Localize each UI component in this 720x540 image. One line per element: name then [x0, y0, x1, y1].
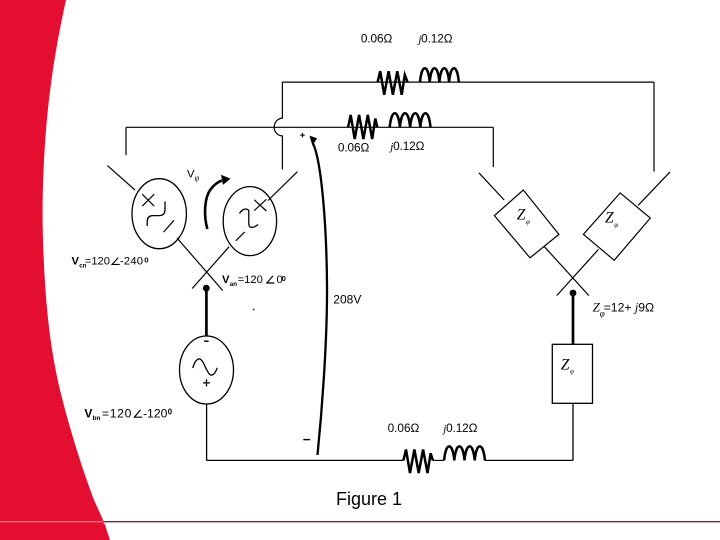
- source Van sine squiggle: [240, 209, 259, 227]
- wire: top line horizontal: [282, 81, 654, 83]
- source Vbn sine wave: [193, 359, 217, 375]
- wire: source Vbn to bottom line vertical: [206, 404, 208, 461]
- impedance Z3 box: [552, 344, 592, 403]
- source Vcn polarity x mark: [142, 194, 154, 206]
- wire: middle line right vertical drop: [492, 127, 494, 167]
- source Vbn polarity plus: [203, 379, 210, 386]
- svg-text:=120: =120: [85, 256, 110, 268]
- source Vcn polarity minus tick: [164, 220, 175, 232]
- wire: bottom line horizontal left of resistor: [207, 459, 404, 461]
- svg-text:0.06Ω: 0.06Ω: [388, 421, 420, 435]
- source Vcn sine squiggle: [147, 202, 165, 227]
- impedance Z2 box (rotated): [583, 193, 650, 260]
- wire: middle line left vertical stub: [125, 127, 127, 155]
- svg-text:an: an: [230, 281, 237, 288]
- wire: middle line horizontal: [126, 126, 493, 128]
- svg-text:j0.12Ω: j0.12Ω: [388, 139, 424, 153]
- wire: bottom line right of inductor: [485, 459, 573, 461]
- voltage arrow 208V curved with arrowhead: [313, 144, 327, 456]
- source Van ellipse: [223, 187, 276, 256]
- svg-text:-240: -240: [120, 256, 143, 268]
- source Vbn ellipse: [180, 336, 234, 404]
- svg-text:Z: Z: [605, 210, 614, 227]
- impedance Z1 box (rotated): [494, 190, 559, 258]
- resistor 0.06 ohm top line: [378, 71, 408, 95]
- resistor 0.06 ohm middle line: [348, 115, 377, 139]
- resistor 0.06 ohm bottom line: [403, 450, 433, 474]
- svg-text:208V: 208V: [333, 292, 361, 306]
- minus sign at bottom of 208V arrow: [303, 439, 310, 441]
- svg-text:Z: Z: [517, 207, 526, 224]
- wire: diagonal from middle line stub to source Vcn: [107, 166, 135, 190]
- wire: diagonal from top-line drop to impedance Z2: [638, 172, 670, 205]
- wire: diagonal from top-line vertical to source Van: [268, 172, 298, 201]
- plus sign at top of 208V arrow: [300, 133, 304, 137]
- source Vcn ellipse: [132, 179, 186, 249]
- source Van polarity x mark: [254, 199, 266, 211]
- wire: node n to source Vbn (thick): [205, 288, 208, 336]
- label Vcn = 120 angle -240 deg: [72, 255, 149, 269]
- svg-text:0: 0: [168, 407, 173, 416]
- wire: bottom line between resistor and inductor: [433, 459, 444, 461]
- wire: impedance Z1 diagonal to load node N: [544, 247, 589, 296]
- label Vbn = 120 angle -120 deg: [84, 406, 172, 422]
- svg-text:φ: φ: [526, 218, 530, 226]
- svg-text:0.06Ω: 0.06Ω: [361, 32, 393, 46]
- svg-text:φ: φ: [570, 368, 574, 376]
- svg-text:=120: =120: [238, 274, 263, 286]
- svg-text:bn: bn: [93, 415, 101, 422]
- svg-text:j0.12Ω: j0.12Ω: [441, 421, 477, 435]
- svg-text:=120: =120: [102, 406, 132, 420]
- wire: top line left vertical with hop over middle line: [274, 82, 282, 169]
- wire: diagonal from middle-line drop to impedance Z1: [479, 173, 504, 200]
- wire: source Van diagonal to neutral node n: [192, 247, 229, 289]
- svg-text:φ: φ: [614, 221, 618, 229]
- stray dot mark: [253, 309, 255, 311]
- source Van polarity minus tick: [236, 232, 245, 241]
- node N junction dot: [570, 290, 577, 297]
- inductor j0.12 ohm middle line: [390, 113, 431, 127]
- svg-text:V: V: [222, 274, 230, 286]
- wire: impedance Z3 to bottom line: [572, 403, 574, 460]
- phase rotation arrow (curved, clockwise): [205, 181, 222, 230]
- wire: impedance Z2 diagonal to load node N: [557, 249, 599, 295]
- svg-text:j0.12Ω: j0.12Ω: [416, 32, 452, 46]
- label Van = 120 angle 0 deg: [222, 274, 286, 288]
- svg-text:=12+ j9Ω: =12+ j9Ω: [604, 301, 654, 315]
- wire: node N to impedance Z3 (thick): [572, 293, 575, 344]
- svg-text:V: V: [84, 406, 92, 420]
- inductor j0.12 ohm top line: [420, 68, 459, 82]
- wire: top line right vertical drop: [653, 82, 655, 172]
- svg-text:0: 0: [282, 274, 286, 283]
- svg-text:Z: Z: [561, 357, 570, 374]
- node n junction dot: [203, 285, 210, 292]
- svg-text:0.06Ω: 0.06Ω: [338, 140, 370, 154]
- svg-text:-120: -120: [143, 406, 168, 420]
- source Vbn polarity minus: [204, 340, 209, 342]
- inductor j0.12 ohm bottom line: [444, 446, 485, 460]
- svg-text:Figure 1: Figure 1: [336, 489, 402, 509]
- wire: source Vcn diagonal to neutral node n: [177, 238, 223, 291]
- svg-text:0: 0: [144, 255, 148, 264]
